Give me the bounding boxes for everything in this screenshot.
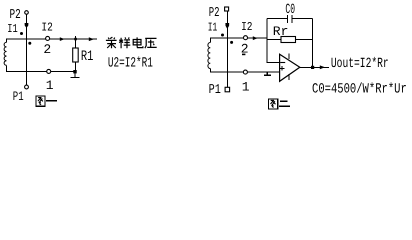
glyph 二 of 图二 [280,101,287,103]
wire bottom horizontal fig2 (to op-amp + input) [210,71,279,73]
wire C0 branch left segment [267,18,288,20]
svg-text:1: 1 [46,78,54,93]
glyph 样 [119,37,130,48]
arrowhead current I2 on top wire fig1 [60,37,65,41]
caption 图一 (figure one) [36,96,57,106]
ground G1 fig1 [71,72,80,78]
junction dot bottom of R1 fig1 [73,70,76,73]
winding polarity dot secondary fig1 [28,42,31,45]
svg-text:I1: I1 [208,21,218,35]
junction dot R1 top fig1 [74,38,77,41]
capacitor C0 plates [288,15,292,23]
wire primary conductor vertical P2-P1 [26,14,28,85]
svg-text:Rr: Rr [273,24,289,39]
underline dash below label 2 fig2 [242,54,245,56]
coil L1 secondary winding fig1 [4,42,6,65]
svg-text:1: 1 [242,79,250,94]
wire Rr branch right segment [296,39,314,41]
terminal P2 circle fig1 [25,11,29,15]
svg-text:R1: R1 [81,49,94,65]
terminal P2 square fig2 [225,7,229,11]
svg-text:C0: C0 [285,2,295,18]
op-amp power tick top [288,53,290,59]
junction dot output/feedback fig2 [311,66,314,69]
wire R1 bottom lead [75,62,77,72]
wire R1 branch tick above junction [75,36,77,48]
glyph 电 [133,37,143,47]
wire top horizontal fig1 [7,38,98,40]
wire coil bottom to bottom wire [6,65,8,72]
svg-text:U2=I2*R1: U2=I2*R1 [108,56,153,72]
glyph 采 [106,37,117,48]
glyph 图 of 图一 [36,96,45,106]
svg-text:P1: P1 [209,83,221,98]
winding polarity dot primary fig1 [20,32,23,35]
arrowhead I1 current direction (down) fig1 [25,23,29,28]
svg-text:I1: I1 [7,22,17,36]
winding polarity dot primary fig2 [221,34,224,37]
svg-text:P1: P1 [13,89,24,104]
op-amp U1 triangle [280,54,300,81]
glyph 一 of 图一 [46,100,57,102]
svg-text:C0=4500/W*Rr*Ur: C0=4500/W*Rr*Ur [312,81,407,97]
wire Rr branch left segment [267,39,281,41]
terminal P1 circle fig1 [25,85,29,89]
op-amp plus sign [280,66,285,71]
arrowhead on output wire fig2 [320,65,325,69]
wire left vertical (corner to coil top) [6,39,8,43]
resistor Rr body [281,37,296,43]
svg-text:Uout=I2*Rr: Uout=I2*Rr [331,56,389,72]
op-amp minus sign (inverting input stub) [280,62,285,64]
node 2 circle fig1 [46,36,50,40]
svg-text:I2: I2 [241,20,252,34]
ground at non-inverting input fig2 [264,72,271,75]
caption 图二 (figure two) [268,99,290,109]
wire bottom horizontal fig1 [7,71,77,73]
wire feedback left vertical fig2 [266,19,268,63]
arrowhead second on top wire fig1 [89,37,94,41]
winding polarity dot secondary fig2 [230,41,233,44]
wire op-amp output fig2 [300,66,329,68]
svg-text:P2: P2 [209,6,220,21]
wire coil bottom to bottom wire fig2 [209,68,211,72]
op-amp power tick bottom [288,74,290,80]
svg-text:P2: P2 [10,8,21,23]
arrowhead I1 current direction (down) fig2 [225,23,229,29]
label 采样电压 (sampled voltage) [106,37,157,48]
wire top horizontal fig2 [210,37,267,39]
svg-text:I2: I2 [41,21,52,35]
node 1 circle fig1 [47,69,51,73]
coil L2 secondary winding fig2 [208,43,210,69]
svg-text:2: 2 [43,42,51,57]
terminal P1 square fig2 [225,87,230,92]
wire feedback right vertical fig2 [312,19,314,68]
wire C0 branch right segment [292,18,313,20]
node 1 circle fig2 [243,70,247,74]
arrowhead current I2 on top wire fig2 [253,36,258,40]
wire primary conductor vertical P2-P1 fig2 [226,11,228,87]
wire inverting input horizontal fig2 [267,62,280,64]
node 2 circle fig2 [244,36,248,40]
glyph 压 [145,38,157,48]
glyph 图 of 图二 [268,99,277,109]
resistor R1 body [73,48,79,62]
wire left corner to coil top fig2 [209,38,211,43]
